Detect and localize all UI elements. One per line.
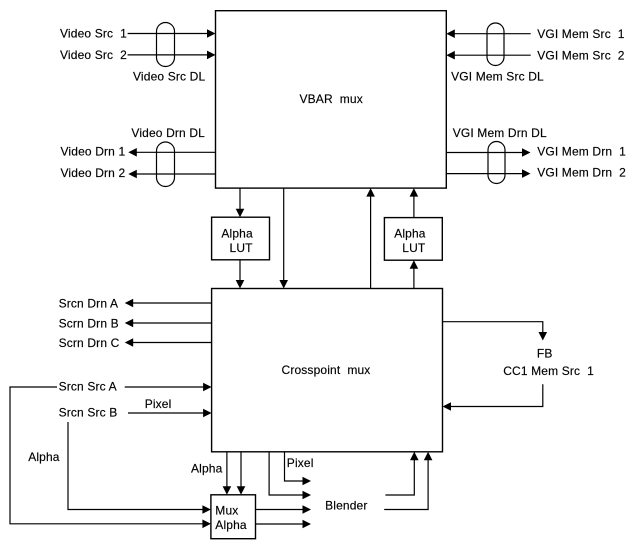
wire VGI Mem Drn 2 out of VBAR <box>446 166 626 180</box>
delay line DL1 Video Src DL <box>133 23 205 84</box>
svg-text:Video Src 2: Video Src 2 <box>60 48 127 62</box>
svg-text:Video Src DL: Video Src DL <box>133 69 205 83</box>
wire Scrn Drn B out of Crosspoint <box>59 317 212 331</box>
block U3 Alpha LUT (left) <box>212 217 270 260</box>
wire VBAR to left Alpha LUT <box>236 188 245 217</box>
svg-text:LUT: LUT <box>230 241 254 255</box>
wire Srcn Drn A out of Crosspoint <box>59 297 212 311</box>
svg-text:Video Drn 2: Video Drn 2 <box>61 166 126 180</box>
wire Alpha feed from Srcn Src B to Mux Alpha <box>68 422 211 514</box>
wire Crosspoint up to VBAR <box>366 188 375 288</box>
wire VBAR direct to Crosspoint <box>279 188 288 288</box>
node FB / CC1 Mem Src 1 <box>503 347 594 379</box>
svg-text:Alpha: Alpha <box>28 450 60 464</box>
wire Srcn Src A into Crosspoint <box>59 379 212 393</box>
wire Mux Alpha output 1 to Blender <box>256 505 312 514</box>
svg-text:VGI Mem Drn DL: VGI Mem Drn DL <box>453 126 547 140</box>
wire Video Drn 2 out of VBAR <box>61 166 216 180</box>
svg-text:LUT: LUT <box>402 241 426 255</box>
svg-text:Video Drn DL: Video Drn DL <box>131 126 205 140</box>
wire Video Src 1 into VBAR <box>60 27 216 41</box>
svg-text:Crosspoint mux: Crosspoint mux <box>282 363 371 377</box>
block U2 Crosspoint mux <box>212 289 443 452</box>
svg-text:Video Drn 1: Video Drn 1 <box>61 144 126 158</box>
wire CC1 Mem Src return into Crosspoint <box>443 384 543 411</box>
block U5 Mux Alpha <box>211 495 256 539</box>
delay line DL2 VGI Mem Src DL <box>451 23 544 83</box>
svg-text:FB: FB <box>537 347 553 361</box>
svg-text:Srcn Src A: Srcn Src A <box>59 379 117 393</box>
wire Pixel output to Blender <box>285 452 312 486</box>
wire Srcn Src B into Crosspoint <box>59 406 212 420</box>
wire VGI Mem Src 1 into VBAR <box>446 27 625 41</box>
delay line DL3 Video Drn DL <box>131 126 205 186</box>
delay line DL4 VGI Mem Drn DL <box>453 126 547 184</box>
wire Video Src 2 into VBAR <box>60 48 216 62</box>
svg-text:VBAR mux: VBAR mux <box>300 92 363 106</box>
block U4 Alpha LUT (right) <box>384 218 442 261</box>
svg-text:Pixel: Pixel <box>145 397 172 411</box>
svg-text:Mux: Mux <box>215 504 238 518</box>
wire left Alpha LUT to Crosspoint <box>236 260 245 289</box>
wire VGI Mem Drn 1 out of VBAR <box>446 145 626 159</box>
wire right Alpha LUT up to VBAR <box>410 188 419 218</box>
svg-text:Scrn Drn B: Scrn Drn B <box>59 317 119 331</box>
wire Crosspoint to Mux Alpha (alpha 1) <box>223 452 232 495</box>
svg-text:VGI Mem Src 1: VGI Mem Src 1 <box>537 27 625 41</box>
wire Crosspoint up to right Alpha LUT <box>410 260 419 288</box>
svg-text:Video Src 1: Video Src 1 <box>60 27 127 41</box>
svg-text:Alpha: Alpha <box>394 226 426 240</box>
wire Blender return 1 into Crosspoint <box>385 452 418 495</box>
wire Blender return 2 into Crosspoint <box>384 452 432 510</box>
wire Video Drn 1 out of VBAR <box>61 144 216 158</box>
svg-text:Pixel: Pixel <box>287 456 314 470</box>
wire Mux Alpha output 2 to Blender <box>256 520 312 529</box>
wire Alpha feed from Srcn Src A to Mux Alpha (left rail) <box>10 387 211 528</box>
svg-text:VGI Mem Src 2: VGI Mem Src 2 <box>537 49 625 63</box>
svg-text:Srcn Drn A: Srcn Drn A <box>59 297 119 311</box>
svg-text:VGI Mem Src DL: VGI Mem Src DL <box>451 69 544 83</box>
svg-text:Srcn Src B: Srcn Src B <box>59 406 118 420</box>
wire Crosspoint output to Blender <box>269 452 311 500</box>
svg-text:Alpha: Alpha <box>215 518 247 532</box>
wire VGI Mem Src 2 into VBAR <box>446 49 625 63</box>
svg-text:Alpha: Alpha <box>221 226 253 240</box>
svg-text:Scrn Drn C: Scrn Drn C <box>59 336 120 350</box>
svg-text:VGI Mem Drn 2: VGI Mem Drn 2 <box>537 166 626 180</box>
wire FB output from Crosspoint <box>443 322 548 341</box>
svg-text:CC1 Mem Src 1: CC1 Mem Src 1 <box>503 364 594 378</box>
svg-text:Blender: Blender <box>325 499 367 513</box>
block U1 VBAR mux <box>216 11 447 188</box>
svg-text:VGI Mem Drn 1: VGI Mem Drn 1 <box>537 145 626 159</box>
svg-text:Alpha: Alpha <box>191 462 223 476</box>
wire Crosspoint to Mux Alpha (alpha 2) <box>237 452 246 495</box>
wire Scrn Drn C out of Crosspoint <box>59 336 212 350</box>
